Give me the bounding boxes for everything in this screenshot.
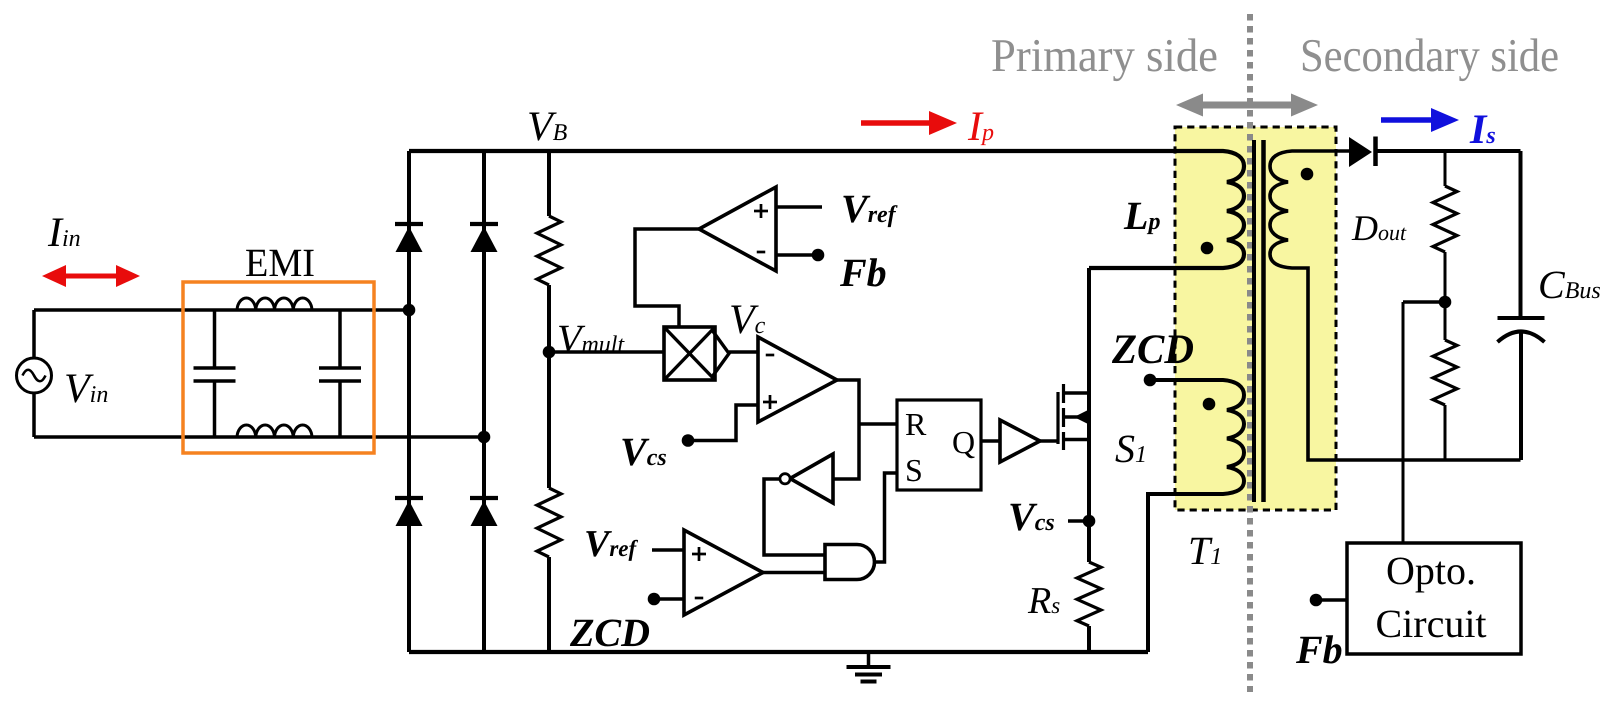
svg-text:S: S [905,452,923,488]
svg-text:Q: Q [952,424,975,460]
svg-text:Opto.: Opto. [1386,548,1476,593]
svg-text:ZCD: ZCD [569,610,650,655]
svg-text:Fb: Fb [1295,627,1343,672]
svg-text:EMI: EMI [245,240,315,285]
svg-text:ZCD: ZCD [1111,327,1194,373]
svg-text:Fb: Fb [839,250,887,295]
svg-text:Circuit: Circuit [1375,601,1486,646]
svg-text:Primary side: Primary side [991,30,1218,82]
svg-text:Secondary side: Secondary side [1300,30,1559,82]
svg-text:R: R [905,406,927,442]
